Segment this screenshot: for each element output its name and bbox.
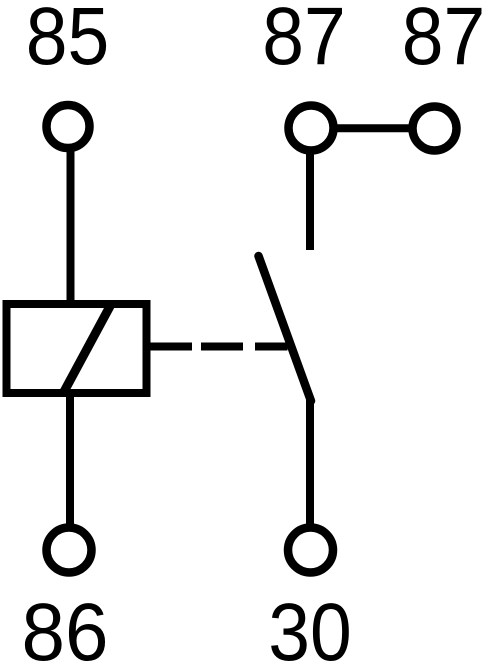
wire arm to terminal 30	[306, 399, 314, 526]
wire coil to terminal 86	[66, 391, 74, 526]
coil K1	[7, 304, 147, 393]
actuator dashed link	[146, 343, 288, 351]
wire 85 to coil	[67, 150, 75, 308]
svg-text:85: 85	[26, 0, 110, 82]
svg-text:87: 87	[402, 0, 486, 82]
wire 87 to 87	[336, 124, 410, 132]
terminal 85	[47, 105, 90, 148]
terminal 87	[289, 106, 334, 151]
wire 87 contact stem	[306, 152, 314, 250]
svg-text:30: 30	[268, 587, 352, 664]
terminal 30	[288, 528, 333, 573]
switch arm contact	[259, 256, 312, 401]
terminal 86	[47, 528, 92, 573]
svg-text:86: 86	[22, 587, 109, 664]
svg-text:87: 87	[262, 0, 346, 82]
terminal 87 second	[413, 107, 457, 151]
coil diagonal stroke	[63, 304, 112, 394]
